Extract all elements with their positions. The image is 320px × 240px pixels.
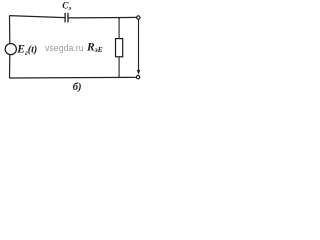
svg-text:RэЕ: RэЕ bbox=[86, 41, 103, 54]
arrow current direction (down) bbox=[137, 70, 140, 75]
svg-text:Cэ: Cэ bbox=[62, 2, 71, 13]
wire left vertical upper (corner to source) bbox=[9, 16, 11, 44]
svg-text:vsegda.ru: vsegda.ru bbox=[45, 43, 84, 53]
capacitor C_э plates bbox=[65, 13, 68, 23]
wire top-left horizontal (corner to capacitor) bbox=[9, 16, 65, 18]
wire left vertical lower (source to bottom wire) bbox=[9, 55, 11, 79]
svg-text:б): б) bbox=[73, 82, 82, 93]
terminal top-right bbox=[137, 16, 140, 19]
wire right vertical (between terminals) bbox=[138, 19, 140, 73]
resistor R_эЕ body bbox=[116, 39, 123, 57]
wire bottom horizontal bbox=[9, 76, 136, 79]
wire resistor branch lower bbox=[118, 57, 120, 78]
terminal bottom-right bbox=[136, 75, 139, 78]
wire top-right horizontal (capacitor to terminal) bbox=[69, 16, 137, 19]
node junction of resistor branch with top wire bbox=[118, 17, 120, 19]
wire resistor branch upper bbox=[118, 18, 120, 39]
source E_г(t) circle bbox=[5, 44, 16, 55]
svg-text:Eг(t): Eг(t) bbox=[16, 44, 37, 57]
